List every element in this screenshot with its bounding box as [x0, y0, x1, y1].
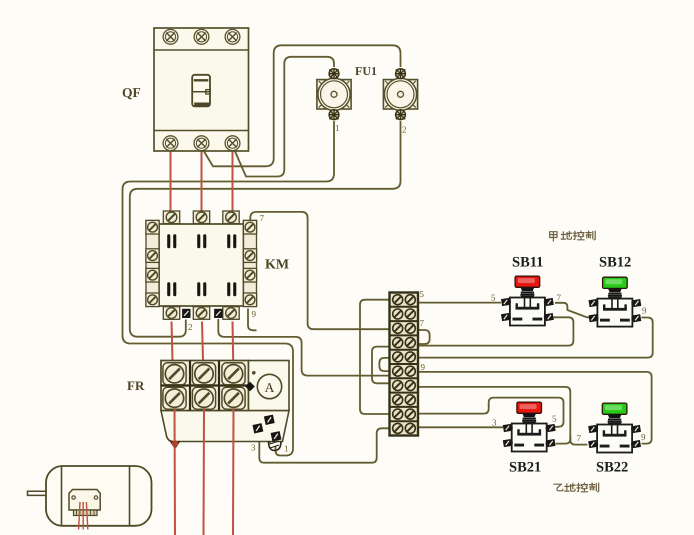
svg-text:9: 9	[421, 362, 426, 372]
wire L3 QF to KM top right	[232, 149, 234, 211]
FR wire clamp fan	[269, 441, 282, 451]
svg-text:5: 5	[491, 293, 496, 303]
breaker QF	[154, 28, 249, 151]
char 控	[573, 231, 584, 240]
svg-text:1: 1	[284, 444, 289, 454]
pushbutton SB11 (red stop)	[501, 276, 554, 325]
contactor KM	[146, 211, 257, 319]
wire V KM bottom to FR top middle	[202, 322, 203, 361]
KM coil screw A2 (net 9)	[214, 309, 222, 318]
svg-text:2: 2	[188, 322, 193, 332]
svg-text:1: 1	[335, 123, 340, 133]
wire strip row10 to SB21 left-top (net 3)	[418, 426, 503, 428]
FR NC contact screws 95/96	[264, 415, 275, 425]
FR body trapezoid	[161, 411, 289, 442]
pin number labels	[188, 123, 647, 454]
wire jumper strip row1 to row9	[360, 300, 390, 414]
wire L1 QF to KM top left	[170, 149, 172, 211]
wire strip row4 to SB11 right-bottom (net 7)	[418, 317, 573, 345]
svg-text:SB11: SB11	[512, 255, 543, 271]
fuse FU1-2	[383, 69, 417, 120]
KM side terminal columns	[146, 221, 159, 307]
svg-text:SB22: SB22	[596, 460, 628, 476]
thermal relay FR	[161, 361, 289, 451]
FR cable notch	[170, 441, 181, 450]
wire FR contact stub	[269, 425, 271, 444]
motor shaft	[28, 491, 47, 497]
wire SB12 right-bottom to strip row5 (net 9)	[418, 318, 653, 358]
KM bottom terminals	[163, 307, 179, 320]
wire KM coil screw (net 9) to strip row 6	[218, 319, 390, 376]
wire QF right terminal to FU1-1 top	[234, 57, 334, 177]
KM contact bars	[167, 234, 236, 296]
pushbutton SB21 (red stop)	[503, 402, 556, 451]
svg-text:7: 7	[577, 433, 582, 443]
char 地	[561, 231, 572, 239]
char 地	[565, 483, 576, 491]
svg-text:3: 3	[492, 418, 497, 428]
char 控	[577, 483, 588, 492]
svg-text:9: 9	[642, 306, 647, 316]
wire FR terminal 3 to strip row 10	[259, 428, 390, 462]
FR terminal block	[161, 361, 249, 411]
chinese caption 甲地控制 (site A control)	[550, 231, 596, 241]
char 乙	[554, 484, 563, 491]
svg-text:7: 7	[557, 293, 562, 303]
char 制	[590, 483, 599, 492]
motor terminal box	[69, 490, 100, 511]
KM coil screw A1 (net 2)	[182, 309, 190, 318]
wire branch net7 to SB22 left-bottom	[570, 436, 587, 445]
wire KM aux 9 stub	[248, 309, 257, 331]
svg-text:9: 9	[252, 309, 257, 319]
wire strip row7 to SB21 right-bottom (net 7)	[418, 387, 570, 444]
wire SB11 right-top to SB12 left-bottom	[555, 303, 589, 318]
svg-text:7: 7	[260, 213, 265, 223]
KM top terminals	[163, 211, 179, 224]
wire strip row6 to SB22 right-bottom (net 9)	[418, 372, 652, 444]
svg-text:FU1: FU1	[355, 64, 377, 78]
char 甲	[550, 232, 557, 241]
wire jumper strip row4 to row7	[372, 347, 390, 384]
motor M	[28, 466, 152, 526]
fuse FU1-1	[317, 69, 351, 120]
wire L2 QF to KM top middle	[201, 149, 203, 211]
svg-text:KM: KM	[265, 258, 289, 273]
svg-text:A: A	[265, 380, 275, 395]
motor body	[46, 466, 152, 526]
node red junction at FR bottom edge	[172, 440, 178, 446]
svg-text:9: 9	[641, 432, 646, 442]
terminal strip X	[390, 293, 419, 436]
wire strip row9 arch over SB21 to right-top (net 5)	[418, 398, 564, 427]
wire U KM bottom to FR top left	[172, 322, 173, 361]
KM left side terminals	[146, 220, 159, 234]
wire FR out V to motor lead	[203, 409, 206, 535]
svg-text:3: 3	[251, 443, 256, 453]
svg-text:FR: FR	[127, 378, 145, 393]
FR relay section with ammeter dial	[249, 361, 290, 411]
pushbutton SB22 (green start)	[588, 403, 641, 452]
wire FR out W to motor lead	[232, 409, 235, 535]
wire FU1-1 bottom (net 1) to FR terminal 1	[123, 121, 335, 456]
wire strip row1 to SB11 left-top (net 5)	[418, 302, 501, 304]
wire QF middle terminal to FU1-2 top	[203, 45, 401, 166]
svg-text:7: 7	[420, 318, 425, 328]
wire jumper strip row3 to row4 right	[418, 330, 430, 344]
toggle of QF	[192, 75, 210, 107]
chinese caption 乙地控制 (site B control)	[554, 483, 599, 492]
svg-text:SB12: SB12	[599, 255, 631, 271]
wire motor leads from terminal box	[79, 502, 80, 530]
svg-text:2: 2	[402, 125, 407, 135]
svg-text:QF: QF	[122, 85, 141, 100]
pushbutton SB12 (green start)	[589, 277, 642, 326]
svg-text:5: 5	[420, 289, 425, 299]
svg-text:5: 5	[552, 414, 557, 424]
wire KM aux 7 to strip row 3	[250, 212, 390, 329]
svg-text:SB21: SB21	[509, 460, 541, 476]
wire FU1-2 bottom (net 2) to KM coil screw 2	[130, 121, 401, 337]
char 制	[586, 231, 595, 240]
wire jumper strip row5 to row6	[379, 358, 390, 371]
wire FR out U to motor lead	[174, 409, 177, 535]
KM right side terminals	[243, 220, 256, 234]
wire W KM bottom to FR top right	[232, 322, 235, 361]
